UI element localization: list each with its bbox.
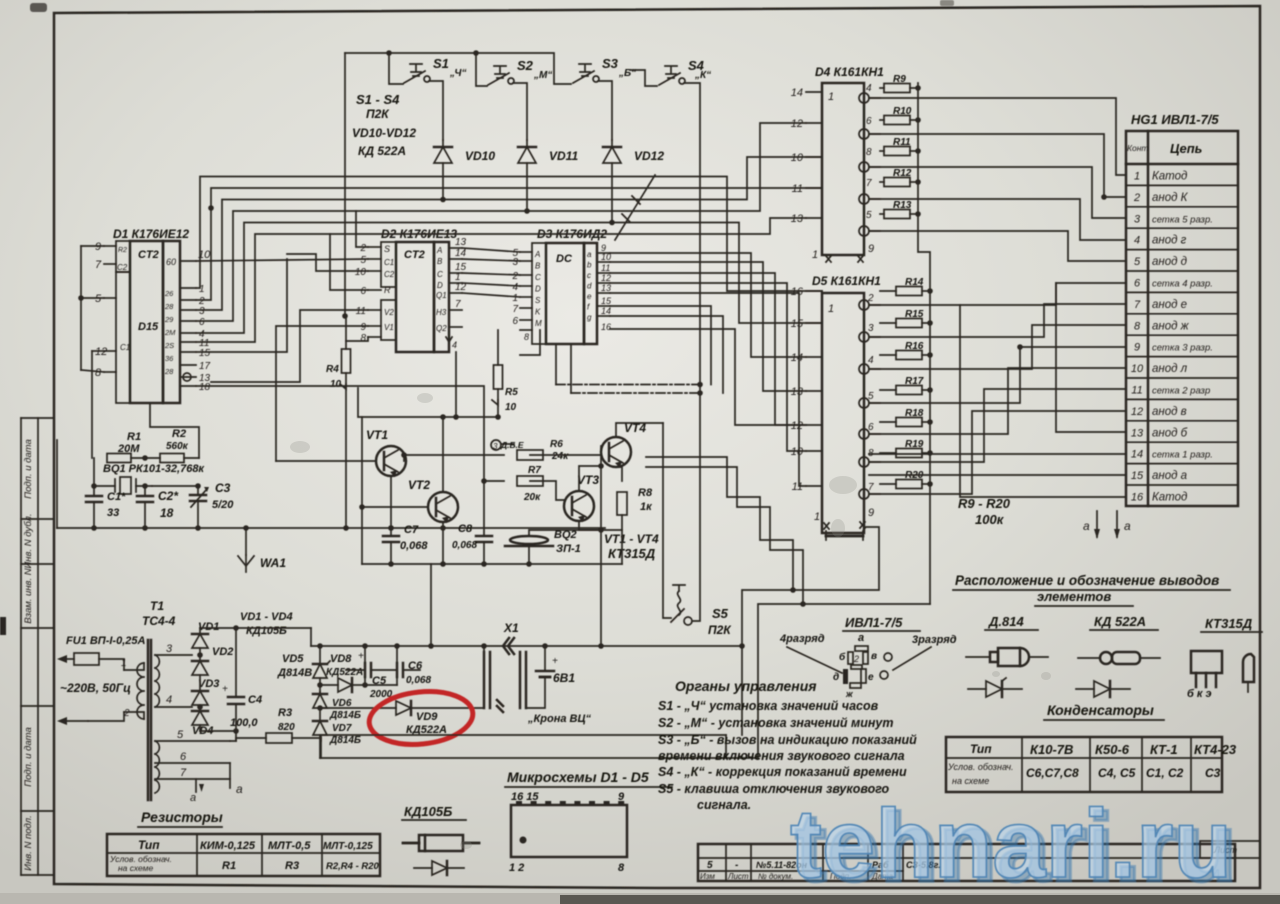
capacitor C6 [397, 660, 431, 686]
svg-text:14: 14 [455, 248, 467, 259]
resistor R4 [326, 316, 351, 531]
svg-text:КД 522А: КД 522А [1094, 614, 1146, 629]
svg-text:10: 10 [1131, 363, 1144, 375]
svg-text:VD5: VD5 [282, 653, 304, 665]
svg-text:7: 7 [180, 767, 187, 779]
svg-text:VD12: VD12 [634, 149, 664, 163]
svg-text:100,0: 100,0 [230, 717, 258, 729]
svg-text:времени включения звукового: времени включения звукового сигнала [658, 749, 905, 763]
transformer T1 TS4-4 [124, 599, 176, 800]
scan artifact top-left [30, 3, 47, 12]
svg-text:36: 36 [165, 354, 174, 363]
zener VD5 [277, 646, 330, 692]
bundle slash marker [615, 175, 655, 240]
svg-text:сетка 1 разр.: сетка 1 разр. [1152, 450, 1213, 461]
svg-text:ИВЛ1-7/5: ИВЛ1-7/5 [845, 615, 903, 630]
svg-text:Д814В: Д814В [277, 667, 312, 679]
wire VT area [196, 352, 663, 649]
svg-text:S2: S2 [517, 58, 534, 73]
svg-text:C1*: C1* [107, 491, 126, 503]
svg-text:14: 14 [791, 87, 803, 99]
svg-text:0,068: 0,068 [400, 540, 428, 552]
svg-text:8: 8 [360, 333, 366, 344]
svg-text:18: 18 [199, 382, 211, 393]
IC D2 K176IE13 [381, 227, 457, 352]
svg-text:33: 33 [107, 507, 119, 519]
svg-text:9: 9 [95, 241, 101, 253]
svg-text:16: 16 [601, 322, 611, 332]
IC D1 K176IE12 [113, 227, 189, 403]
svg-text:1: 1 [512, 293, 518, 304]
svg-text:R3: R3 [285, 860, 299, 872]
svg-text:е: е [868, 672, 874, 683]
svg-text:R8: R8 [638, 487, 653, 499]
svg-text:b: b [587, 261, 592, 270]
svg-text:а: а [858, 632, 864, 644]
svg-text:К10-7В: К10-7В [1030, 742, 1073, 757]
svg-text:С4, С5: С4, С5 [1098, 766, 1136, 780]
IVL1-7/5 pinout diagram [779, 615, 957, 699]
svg-text:15: 15 [791, 318, 804, 330]
svg-text:3: 3 [1134, 213, 1141, 225]
svg-text:8: 8 [618, 862, 625, 874]
wire power rails [311, 564, 758, 758]
svg-text:2: 2 [853, 654, 859, 664]
svg-text:9: 9 [360, 322, 366, 333]
svg-text:3: 3 [868, 323, 874, 334]
svg-text:МЛТ-0,5: МЛТ-0,5 [268, 840, 311, 852]
scan artifact top-middle [940, 0, 954, 6]
svg-text:3: 3 [199, 306, 205, 317]
svg-text:C: C [535, 273, 541, 282]
svg-text:ж: ж [845, 689, 853, 699]
transistor VT1 [366, 428, 406, 477]
D4 pins left [791, 87, 822, 225]
capacitor C7 [383, 524, 428, 552]
bus wires from D1 to D4/D5 [196, 123, 822, 342]
svg-text:4: 4 [868, 355, 874, 366]
KD522A package symbol [1078, 614, 1160, 664]
svg-text:сигнала.: сигнала. [697, 798, 751, 812]
svg-text:R2: R2 [118, 247, 127, 254]
svg-text:КТ4-23: КТ4-23 [1194, 742, 1237, 757]
svg-text:FU1 ВП-I-0,25А: FU1 ВП-I-0,25А [66, 635, 145, 647]
svg-text:9: 9 [1134, 342, 1140, 354]
svg-text:C2*: C2* [158, 489, 179, 503]
svg-text:VD1: VD1 [198, 621, 219, 633]
svg-text:VD3: VD3 [198, 678, 219, 690]
svg-text:R2,R4 - R20: R2,R4 - R20 [326, 861, 380, 872]
svg-text:Д814Б: Д814Б [329, 710, 361, 721]
svg-text:6В1: 6В1 [553, 671, 575, 685]
svg-text:13: 13 [791, 386, 804, 398]
svg-text:сетка 2 разр: сетка 2 разр [1152, 386, 1210, 397]
D5 pins right with switch circles [859, 293, 880, 499]
svg-text:11: 11 [792, 183, 803, 195]
svg-text:g: g [587, 313, 592, 322]
diode VD11 [518, 140, 578, 163]
transistor VT3 [564, 473, 599, 522]
sheet number box [1200, 841, 1260, 858]
svg-text:VT1 - VT4: VT1 - VT4 [604, 532, 659, 546]
resistor R3 [230, 707, 321, 743]
wire D1 pin60 to D2 [196, 259, 368, 352]
transistor VT4 [601, 421, 646, 468]
svg-text:Лист: Лист [727, 872, 749, 881]
svg-text:д: д [833, 672, 839, 683]
resistors R9-R13 [880, 74, 921, 219]
svg-text:5: 5 [360, 255, 366, 266]
svg-text:a: a [587, 250, 592, 259]
svg-text:2: 2 [511, 271, 518, 282]
wire switch S3 output [598, 81, 612, 140]
svg-text:Тип: Тип [970, 742, 992, 756]
svg-text:3разряд: 3разряд [912, 634, 957, 646]
heading Mikroshemy D1-D5 [505, 769, 672, 787]
transistor VT2 [408, 478, 458, 523]
svg-text:R1: R1 [127, 431, 141, 443]
svg-text:13: 13 [791, 213, 804, 225]
svg-text:10: 10 [355, 267, 367, 278]
svg-text:12: 12 [601, 273, 611, 283]
svg-text:11: 11 [601, 263, 610, 273]
svg-text:„Ч“: „Ч“ [449, 68, 466, 79]
diode symbol below package [414, 861, 464, 875]
svg-text:7: 7 [512, 304, 518, 315]
svg-text:в: в [871, 651, 877, 662]
svg-text:R2: R2 [172, 428, 186, 440]
title block columns [698, 844, 941, 881]
svg-text:+: + [358, 651, 364, 662]
svg-text:Цепь: Цепь [1170, 141, 1202, 156]
svg-text:1: 1 [1134, 171, 1140, 183]
svg-text:15: 15 [1131, 470, 1144, 482]
svg-text:С3: С3 [1205, 766, 1221, 780]
svg-text:C4: C4 [248, 694, 262, 706]
svg-text:D15: D15 [138, 321, 159, 333]
svg-text:П2К: П2К [708, 623, 732, 637]
svg-text:КД 522А: КД 522А [358, 144, 406, 158]
drawing frame sidebar column [21, 418, 54, 875]
wire lower frame step [321, 735, 726, 758]
switch S3 [573, 56, 636, 83]
rectifier diodes VD1-VD4 [192, 611, 293, 737]
svg-text:R: R [384, 285, 391, 295]
svg-text:сетка 4 разр.: сетка 4 разр. [1152, 279, 1213, 290]
svg-text:Тип: Тип [138, 838, 160, 852]
svg-text:29: 29 [164, 315, 174, 324]
wire dash-dot pair to S4 line [556, 382, 703, 396]
svg-text:11: 11 [356, 306, 366, 317]
svg-text:2M: 2M [164, 328, 176, 337]
wires D5 outputs to display table [869, 283, 1126, 494]
svg-text:5: 5 [1134, 256, 1141, 268]
svg-text:5/20: 5/20 [212, 499, 234, 511]
controls description text [658, 678, 917, 812]
svg-text:100к: 100к [975, 512, 1005, 527]
zener VD7 [313, 708, 361, 758]
svg-text:анод л: анод л [1152, 363, 1188, 375]
svg-text:VD1 - VD4: VD1 - VD4 [240, 611, 293, 623]
svg-text:HG1 ИВЛ1-7/5: HG1 ИВЛ1-7/5 [1131, 112, 1219, 127]
svg-text:Д.814: Д.814 [988, 614, 1024, 629]
svg-text:R5: R5 [505, 387, 518, 398]
svg-text:VD7: VD7 [332, 723, 352, 734]
svg-text:7: 7 [1134, 299, 1141, 311]
svg-text:V1: V1 [384, 323, 394, 332]
svg-text:КД105Б: КД105Б [246, 625, 287, 637]
svg-text:VD11: VD11 [549, 149, 578, 163]
svg-text:R4: R4 [326, 364, 339, 375]
svg-text:Инв. N дубл.: Инв. N дубл. [23, 514, 34, 569]
svg-text:560к: 560к [166, 441, 189, 452]
switch group label S1-S4 P2K [352, 92, 416, 158]
svg-text:16: 16 [791, 286, 804, 298]
display HG1 IVL1-7/5 pin table [1126, 112, 1238, 506]
svg-text:15: 15 [199, 348, 211, 359]
svg-text:„К“: „К“ [694, 70, 711, 81]
wire D3 outputs to D5 [610, 253, 806, 486]
heading KD105B [402, 804, 466, 820]
svg-text:3: 3 [512, 257, 518, 268]
svg-text:1: 1 [828, 303, 834, 315]
wire mains lower with arrow [57, 708, 130, 725]
svg-text:6: 6 [1134, 278, 1141, 290]
svg-text:14: 14 [601, 306, 611, 316]
svg-text:6: 6 [180, 751, 187, 763]
D1 pins right [180, 249, 211, 393]
svg-text:M: M [535, 319, 542, 328]
svg-text:R6: R6 [550, 439, 563, 450]
svg-text:8: 8 [866, 147, 872, 158]
D814 diode symbol [968, 678, 1022, 697]
svg-text:0,068: 0,068 [406, 675, 431, 686]
heading Rezistory [138, 809, 223, 827]
svg-text:Х1: Х1 [503, 621, 519, 635]
svg-text:8: 8 [524, 332, 529, 342]
wire oscillator rails [57, 246, 605, 531]
svg-text:анод д: анод д [1152, 256, 1187, 268]
svg-text:ТС4-4: ТС4-4 [142, 614, 176, 628]
zener VD6 [313, 694, 361, 721]
svg-text:R7: R7 [528, 465, 541, 476]
wire D3 bottom pins down [520, 330, 571, 393]
svg-text:анод а: анод а [1152, 470, 1187, 482]
svg-text:820: 820 [278, 722, 295, 733]
svg-text:анод ж: анод ж [1152, 320, 1190, 332]
wire D2 to D3 links [462, 248, 520, 297]
svg-text:24к: 24к [551, 451, 569, 462]
svg-text:C3: C3 [215, 481, 231, 495]
svg-text:VD10-VD12: VD10-VD12 [352, 126, 416, 140]
label 220V 50Hz [60, 681, 131, 695]
svg-text:анод б: анод б [1152, 427, 1188, 439]
capacitor type table [946, 737, 1237, 792]
svg-text:WA1: WA1 [260, 556, 286, 570]
svg-text:S2 - „М“ - установка значений: S2 - „М“ - установка значений минут [658, 716, 893, 730]
svg-text:6: 6 [199, 317, 205, 328]
svg-text:№ докум.: № докум. [758, 872, 793, 881]
svg-text:МЛТ-0,125: МЛТ-0,125 [323, 841, 373, 852]
switch S2 [488, 58, 552, 85]
svg-text:Q1: Q1 [436, 291, 447, 300]
svg-text:на схеме: на схеме [952, 776, 989, 786]
svg-text:20к: 20к [523, 492, 541, 503]
wire corridor supply to D5 pin9 [739, 527, 930, 758]
svg-text:1: 1 [121, 658, 127, 669]
svg-text:Q2: Q2 [436, 324, 447, 333]
svg-text:+: + [552, 656, 558, 667]
svg-text:11: 11 [1131, 385, 1142, 397]
svg-text:1: 1 [828, 91, 834, 103]
R9-R20 common rail [918, 83, 930, 604]
capacitor C1 [86, 486, 126, 528]
svg-text:Расположение и обозначение выв: Расположение и обозначение выводов [955, 573, 1219, 588]
svg-text:Взам. инв. N: Взам. инв. N [23, 568, 34, 623]
svg-text:4: 4 [166, 694, 172, 706]
resistor R6 [491, 439, 569, 462]
svg-text:а: а [1083, 519, 1090, 533]
capacitor C5 [346, 651, 397, 700]
svg-text:анод в: анод в [1152, 406, 1187, 418]
svg-text:0,068: 0,068 [452, 540, 477, 551]
svg-text:КТ315Д: КТ315Д [1205, 616, 1253, 631]
svg-text:8: 8 [1134, 320, 1141, 332]
wire VD12 down [609, 163, 615, 225]
svg-text:Катод: Катод [1152, 492, 1187, 504]
antenna WA1 [238, 525, 286, 572]
svg-text:С1, С2: С1, С2 [1146, 766, 1184, 780]
svg-text:60: 60 [166, 257, 176, 267]
D4 pins right with switch circles [859, 83, 880, 255]
diode package drawing [403, 835, 479, 851]
heading Raspolozhenie [953, 573, 1230, 606]
svg-text:П2К: П2К [366, 107, 390, 121]
svg-text:S: S [535, 296, 541, 305]
switch S4 [659, 58, 711, 85]
scan mark left edge [0, 617, 6, 635]
svg-text:D1 К176ИЕ12: D1 К176ИЕ12 [113, 227, 189, 241]
svg-text:а: а [190, 792, 196, 804]
svg-text:VD10: VD10 [465, 149, 495, 163]
svg-text:6: 6 [360, 286, 366, 297]
svg-text:8: 8 [95, 367, 102, 379]
svg-text:а: а [236, 782, 243, 796]
svg-text:15: 15 [601, 296, 612, 306]
svg-text:КД105Б: КД105Б [404, 804, 452, 819]
svg-text:18: 18 [160, 506, 174, 520]
svg-text:3: 3 [166, 643, 173, 655]
svg-text:Катод: Катод [1152, 171, 1187, 183]
svg-text:анод г: анод г [1152, 235, 1187, 247]
resistor R5 [492, 330, 518, 420]
svg-text:VD9: VD9 [416, 711, 438, 723]
svg-text:VT3: VT3 [577, 473, 599, 487]
svg-text:4: 4 [866, 83, 872, 94]
svg-text:Услов. обознач.: Услов. обознач. [947, 762, 1014, 772]
svg-text:Конденсаторы: Конденсаторы [1047, 702, 1154, 718]
svg-text:4разряд: 4разряд [779, 633, 825, 645]
resistor R7 [517, 465, 543, 503]
svg-text:A: A [436, 246, 442, 255]
svg-text:e: e [587, 292, 592, 301]
svg-text:R3: R3 [278, 707, 292, 719]
svg-text:VT1: VT1 [366, 428, 388, 442]
svg-text:12: 12 [791, 118, 803, 130]
svg-text:С6,С7,С8: С6,С7,С8 [1026, 766, 1079, 780]
svg-text:C2: C2 [117, 263, 128, 272]
resistor R2 [131, 428, 189, 463]
svg-text:сетка 3 разр.: сетка 3 разр. [1152, 343, 1213, 354]
capacitor C4 [200, 625, 311, 741]
svg-text:CT2: CT2 [138, 249, 159, 261]
svg-text:D4 К161КН1: D4 К161КН1 [815, 65, 884, 79]
svg-text:26: 26 [164, 289, 174, 298]
resistors R14-R20 [880, 277, 933, 489]
D4 bottom pins 1 and 9 [812, 243, 874, 262]
svg-text:VT2: VT2 [408, 478, 430, 492]
svg-text:C1: C1 [120, 343, 130, 352]
svg-text:6: 6 [866, 116, 872, 127]
svg-text:12: 12 [1131, 406, 1143, 418]
title block [698, 844, 1235, 881]
svg-text:сетка 5 разр.: сетка 5 разр. [1152, 214, 1213, 225]
wires D4 outputs to display table [869, 98, 1126, 261]
svg-text:10: 10 [505, 402, 517, 413]
svg-text:S5: S5 [712, 606, 729, 621]
svg-text:4: 4 [452, 340, 457, 350]
resistor R8 [617, 487, 653, 515]
svg-text:КТ-1: КТ-1 [1150, 742, 1178, 757]
svg-text:17: 17 [199, 361, 211, 372]
svg-text:ЗП-1: ЗП-1 [556, 543, 581, 555]
scan smudges [290, 393, 1051, 849]
diode VD10 [434, 140, 495, 163]
diode VD12 [603, 140, 664, 163]
svg-text:Инв. N подл.: Инв. N подл. [23, 815, 34, 871]
svg-text:14: 14 [791, 352, 803, 364]
svg-text:5: 5 [707, 860, 713, 871]
svg-text:d: d [587, 282, 592, 291]
svg-text:КТ315Д: КТ315Д [608, 546, 656, 561]
KT315D package symbol [1187, 616, 1262, 700]
D814 package symbol [966, 614, 1048, 666]
svg-text:Конт: Конт [1127, 143, 1149, 153]
resistor R1 [107, 431, 141, 463]
svg-text:Д.Б.Е: Д.Б.Е [500, 440, 524, 450]
svg-text:tehnari.ru: tehnari.ru [790, 789, 1232, 898]
svg-text:13: 13 [455, 237, 467, 248]
svg-text:28: 28 [164, 302, 174, 311]
svg-text:BQ1 РК101-32,768к: BQ1 РК101-32,768к [103, 463, 205, 475]
svg-text:а: а [1124, 519, 1131, 533]
IC D3 K176ID2 [532, 227, 607, 344]
wire switch S2 output [513, 83, 527, 140]
switch S1 [404, 56, 466, 83]
wire VD11 down [524, 163, 530, 214]
svg-text:S1 - S4: S1 - S4 [356, 92, 400, 107]
svg-text:13: 13 [1131, 427, 1144, 439]
svg-text:14: 14 [1131, 449, 1143, 461]
svg-text:9: 9 [868, 243, 874, 255]
wire feeds to D2 left pins [211, 211, 368, 461]
svg-text:1: 1 [814, 511, 820, 523]
svg-text:7: 7 [95, 259, 102, 271]
svg-text:Подп. и дата: Подп. и дата [23, 727, 34, 786]
svg-text:S3: S3 [602, 56, 619, 71]
svg-text:D: D [535, 285, 541, 294]
svg-text:Резисторы: Резисторы [141, 809, 223, 825]
